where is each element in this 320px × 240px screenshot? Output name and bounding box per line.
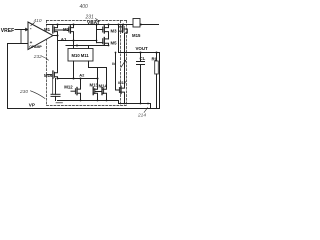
rail VP (bottom) [8,108,160,110]
junction dots top rail [57,24,59,26]
svg-text:214: 214 [137,113,146,119]
node A1 wire [58,40,97,42]
junction op-amp/M1 drain [57,35,59,37]
svg-text:A1: A1 [61,37,67,42]
transistor M5 [103,38,105,45]
block M10 M11 [68,49,93,62]
op-amp U410 [28,22,53,50]
transistor M3 [103,26,105,33]
svg-text:230: 230 [19,89,28,95]
svg-text:M14: M14 [99,84,108,89]
wire box leg left [73,61,75,79]
ground hatch [56,102,63,104]
svg-text:OPAMP: OPAMP [29,45,42,49]
svg-text:A2: A2 [79,73,85,78]
wire M15 gate down corridor [124,29,127,53]
rail inner ground [58,100,119,102]
node A2 wire [58,78,98,80]
junction A2 [73,78,75,80]
wire M12 gate [71,90,75,92]
svg-text:M1: M1 [44,27,51,32]
transistor M15 (pass device) [122,25,124,32]
wire op-amp output to node [53,35,58,37]
wire box top to M5 drain [66,45,109,47]
svg-text:M17: M17 [118,80,127,85]
wire VREF input with arrow [15,29,26,31]
capacitor Cc to ground [55,79,57,95]
wire M16 gate [47,74,51,76]
rail VOUT [119,52,160,54]
svg-text:400: 400 [80,4,89,10]
wire M3 gate [97,29,103,31]
svg-text:VOUT: VOUT [136,46,149,51]
rail VBAT (top supply) [47,24,159,26]
wire VBAT tap to VOUT rail [118,25,120,53]
svg-text:M16: M16 [44,73,53,78]
svg-text:VREF: VREF [1,28,14,34]
svg-text:VBAT: VBAT [87,20,100,26]
wire VOUT feedback right edge [159,53,161,109]
wire op-amp + input feedback (left/bottom) [8,44,29,109]
svg-text:M5: M5 [111,40,118,45]
dashed box 231 (compensation block) [47,21,127,106]
wire M5 gate [97,42,103,44]
svg-text:231: 231 [85,15,95,21]
svg-text:410: 410 [34,18,42,24]
component box on rail [133,19,140,28]
svg-text:VP: VP [29,103,35,108]
wire box leg right [88,61,90,68]
svg-text:M15: M15 [132,33,141,38]
wire M1-M2 gate tie [54,29,68,31]
junction box top [76,45,78,47]
junction A1/M2 drain [73,40,75,42]
svg-text:M10 M11: M10 M11 [72,53,90,58]
wire M17 gate [116,53,120,91]
wire box stubs [73,46,75,49]
wire node down middle [57,36,59,73]
svg-text:M12: M12 [64,84,73,89]
wire M13-M14 gate tie [95,91,102,93]
svg-text:M3: M3 [111,29,118,34]
wire to M14 drain [89,68,107,89]
svg-text:232: 232 [33,54,42,60]
